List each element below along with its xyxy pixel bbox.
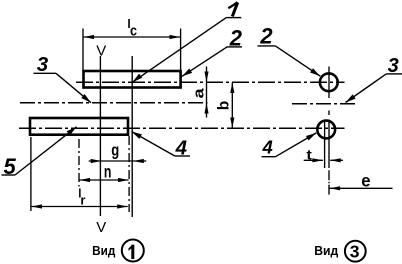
middle joint line (dash-dot) (20, 102, 208, 104)
wire cross-section bottom (circle) (317, 121, 335, 139)
vertical axis of bottom wire (324, 121, 326, 168)
callout 1 (232, 2, 237, 16)
svg-text:n: n (104, 161, 112, 181)
svg-text:V: V (96, 219, 106, 236)
dimension n (80, 179, 129, 181)
svg-text:t: t (306, 146, 312, 162)
short joint line right view (dash-dot) (292, 103, 356, 105)
plate 1 (top bar) (84, 71, 181, 88)
svg-text:Вид: Вид (314, 243, 339, 258)
dimension g (89, 160, 147, 162)
svg-text:3: 3 (350, 242, 360, 262)
svg-text:4: 4 (261, 136, 272, 157)
solder edge line (vertical solid) (131, 56, 133, 217)
svg-text:c: c (130, 22, 137, 39)
svg-text:a: a (191, 87, 207, 98)
wire cross-section top (circle) (320, 73, 338, 91)
centerline of plate 2 (axis, dash-dot) (19, 127, 345, 129)
dimension l_r (32, 206, 128, 208)
vertical axis through wires (dash-dot) (328, 67, 330, 99)
svg-text:2: 2 (259, 24, 273, 49)
dimension e (330, 187, 393, 189)
dimension l_c extension lines (82, 29, 84, 72)
svg-text:r: r (80, 192, 85, 207)
svg-text:V: V (96, 42, 106, 59)
svg-text:b: b (216, 101, 233, 110)
svg-text:g: g (111, 142, 119, 160)
dimension t (304, 159, 323, 161)
svg-text:e: e (361, 171, 371, 191)
svg-text:Вид: Вид (92, 243, 116, 258)
centerline of plate 1 (axis, dash-dot) (76, 81, 345, 83)
section line V-V (99, 56, 101, 216)
dimension l_c (84, 36, 180, 38)
dimension a (206, 67, 208, 118)
extension dash-dot at plate 2 right edge (128, 136, 130, 212)
extension dash-dot at left overlap (78, 139, 80, 187)
plate 2 (bottom bar) (30, 118, 128, 135)
dimension l_r extension line (30, 137, 32, 211)
dimension b (231, 83, 233, 129)
svg-text:3: 3 (37, 53, 49, 76)
